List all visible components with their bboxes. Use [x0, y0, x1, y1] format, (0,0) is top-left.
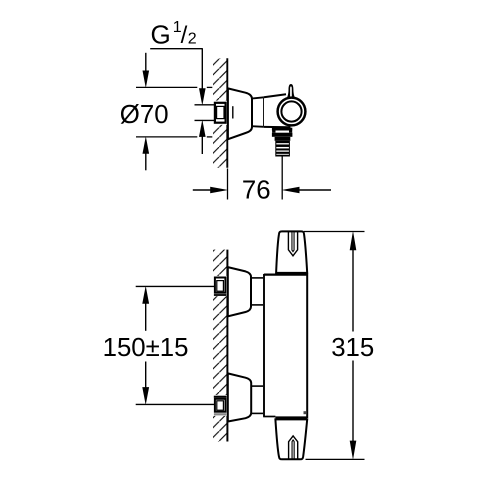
- wall hatch (bottom view): [213, 250, 227, 442]
- upper union square (bottom view): [213, 276, 228, 296]
- handle outer circle (top view): [278, 98, 306, 126]
- Ø70 top arrow (down): [143, 53, 150, 88]
- upper escutcheon (bottom view): [228, 267, 251, 316]
- 315 dimension line with arrows: [350, 231, 357, 460]
- wall face line (bottom view): [226, 250, 228, 442]
- Ø70 bottom extension line: [136, 136, 212, 138]
- outlet connector (top view): [272, 128, 293, 157]
- wall face line (top view): [226, 58, 228, 167]
- 315 dimension bottom extension: [306, 458, 365, 460]
- G1/2 extension line bottom: [195, 119, 215, 121]
- 315 dimension top extension: [304, 231, 365, 233]
- G1/2 lower up arrow: [199, 120, 206, 154]
- svg-text:150±15: 150±15: [103, 334, 189, 362]
- 76 dimension wall extension: [227, 169, 229, 200]
- wall hatch (top view): [213, 58, 227, 167]
- label G 1/2: [151, 19, 197, 49]
- upper pipe (bottom view): [251, 278, 264, 305]
- 150 dimension top extension: [136, 285, 215, 287]
- handle inner circle (top view): [281, 101, 301, 121]
- G1/2 leader underline: [150, 48, 203, 50]
- svg-text:G: G: [151, 19, 171, 49]
- 150 dimension line with arrows: [142, 286, 149, 405]
- svg-text:/: /: [181, 22, 188, 49]
- bottom handle grip: [289, 436, 298, 459]
- 76 dimension left arrow: [193, 187, 228, 194]
- hose line (top view): [281, 157, 283, 200]
- bottom handle (bottom view): [275, 419, 307, 459]
- Ø70 bottom arrow (up): [143, 136, 150, 170]
- logo mark: [304, 411, 307, 414]
- valve body (top view): [264, 94, 291, 127]
- G1/2 leader vertical with down arrow: [199, 49, 206, 106]
- svg-text:2: 2: [188, 31, 197, 48]
- svg-text:315: 315: [331, 334, 374, 362]
- svg-text:76: 76: [242, 177, 271, 205]
- Ø70 top extension line: [136, 86, 212, 88]
- G1/2 extension line top: [195, 104, 215, 106]
- 150 dimension bottom extension: [136, 403, 215, 405]
- escutcheon (top view): [228, 88, 252, 139]
- main body (bottom view): [263, 274, 308, 420]
- lower pipe (bottom view): [251, 386, 264, 413]
- escutcheon inner edge (top view): [232, 106, 234, 118]
- lower union square (bottom view): [213, 395, 228, 416]
- connection pipe (top view): [252, 97, 264, 127]
- top handle grip: [288, 232, 297, 256]
- top handle (bottom view): [276, 231, 307, 273]
- 76 dimension right arrow: [282, 187, 331, 194]
- union nut square (top view): [213, 101, 227, 125]
- lower escutcheon (bottom view): [228, 373, 251, 421]
- svg-text:Ø70: Ø70: [120, 101, 169, 129]
- temperature lever (top view): [285, 84, 297, 103]
